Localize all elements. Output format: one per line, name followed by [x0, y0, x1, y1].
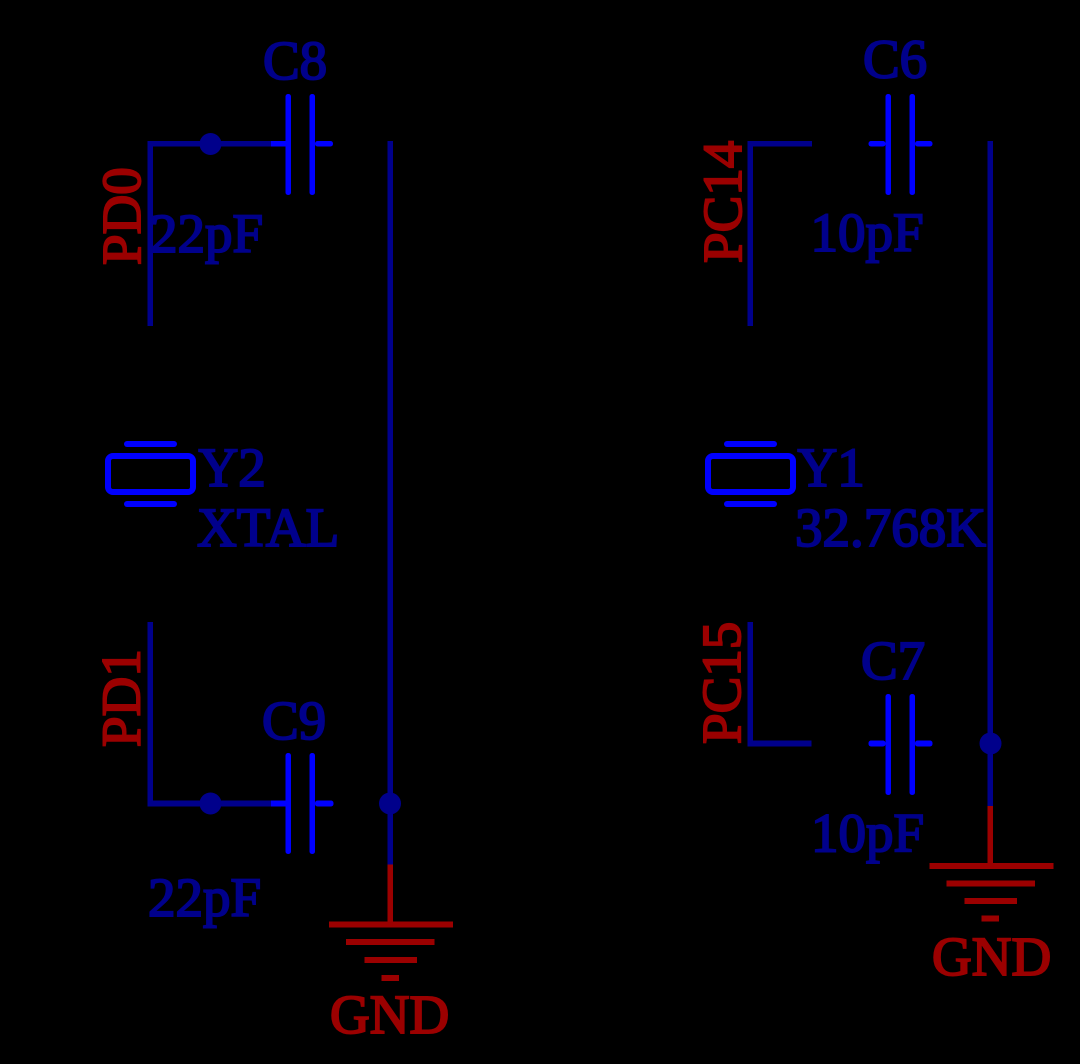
svg-text:C9: C9 [262, 690, 326, 751]
svg-text:22pF: 22pF [148, 867, 261, 928]
svg-text:C6: C6 [863, 29, 927, 90]
crystal Y1 [708, 444, 793, 504]
svg-text:XTAL: XTAL [197, 497, 339, 558]
svg-text:C8: C8 [263, 30, 327, 91]
wire PD1 vertical [148, 622, 154, 807]
svg-text:C7: C7 [861, 630, 925, 691]
wire PC14 vertical [748, 141, 754, 326]
wire PC15 vertical [748, 622, 754, 747]
wire PD0 horizontal [148, 141, 273, 147]
svg-text:10pF: 10pF [811, 803, 924, 864]
svg-text:GND: GND [330, 984, 449, 1045]
svg-text:22pF: 22pF [150, 203, 263, 264]
capacitor C8 [271, 94, 333, 195]
wire PC15 horizontal [748, 741, 812, 747]
wire PD1 horizontal [148, 801, 272, 807]
wire GND rail left vertical [388, 141, 394, 865]
wire GND rail right vertical [988, 141, 994, 806]
svg-text:10pF: 10pF [811, 202, 924, 263]
capacitor C7 [869, 694, 933, 795]
junction dot on GND rail right [980, 733, 1002, 755]
svg-text:PD1: PD1 [91, 649, 152, 747]
svg-text:PC14: PC14 [692, 141, 753, 263]
svg-text:GND: GND [932, 926, 1051, 987]
ground lead right (red) [988, 806, 994, 869]
capacitor C6 [869, 94, 933, 195]
svg-text:Y1: Y1 [798, 437, 865, 498]
svg-text:Y2: Y2 [199, 437, 266, 498]
junction dot on PD0 wire [200, 133, 222, 155]
svg-text:PD0: PD0 [91, 167, 152, 265]
crystal Y2 [108, 444, 193, 504]
ground symbol left [329, 922, 453, 982]
ground symbol right [930, 863, 1054, 922]
ground lead left (red) [388, 865, 394, 928]
wire PD0 vertical [148, 141, 154, 326]
junction dot on GND rail left [379, 793, 401, 815]
svg-text:32.768K: 32.768K [795, 497, 986, 558]
wire PC14 horizontal [748, 141, 813, 147]
junction dot on PD1 wire [200, 793, 222, 815]
capacitor C9 [271, 753, 334, 854]
svg-text:PC15: PC15 [691, 622, 752, 744]
